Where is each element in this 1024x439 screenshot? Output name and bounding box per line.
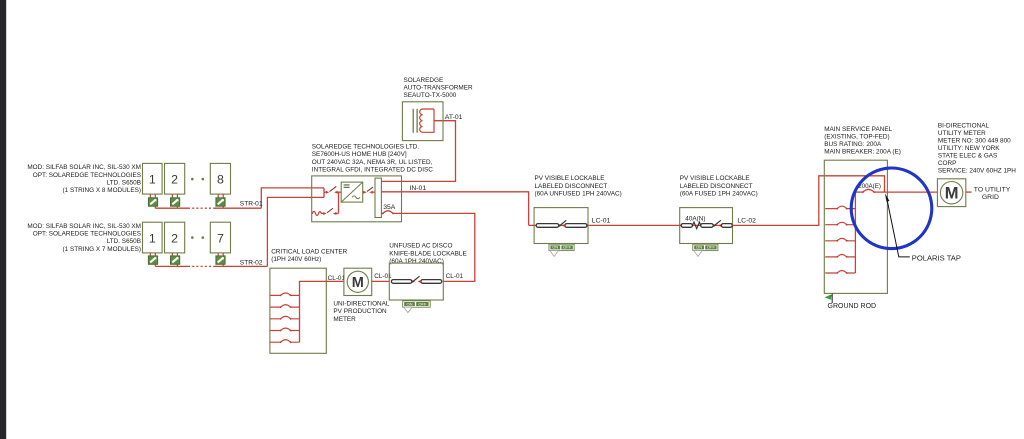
breaker CLC branch 5 xyxy=(270,340,300,343)
inverter symbol (DC/AC) xyxy=(341,182,363,202)
PV module 8 (string 1) xyxy=(210,163,230,194)
svg-text:(1 STRING X 8 MODULES): (1 STRING X 8 MODULES) xyxy=(63,187,141,194)
AC disconnect enclosure xyxy=(389,263,443,300)
PV module 7 (string 2) xyxy=(210,222,230,253)
svg-text:GRID: GRID xyxy=(982,194,999,201)
svg-text:METER: METER xyxy=(333,316,356,323)
note: string 2 module spec xyxy=(27,223,141,253)
wire: IN-01 run through disconnects xyxy=(529,224,680,226)
note: PV production meter label xyxy=(333,301,390,323)
wire: STR-01 riser xyxy=(261,188,324,208)
breaker panel branch 2 xyxy=(825,222,855,225)
inverter enclosure U1 xyxy=(312,176,402,222)
label tag ON/OFF (AC disco) xyxy=(403,301,431,313)
note: inverter spec xyxy=(312,144,433,174)
knife-blade switch (AC disco) xyxy=(391,276,441,283)
note: to utility grid xyxy=(974,187,1011,202)
svg-text:ON: ON xyxy=(696,245,702,250)
svg-text:M: M xyxy=(945,185,959,203)
svg-text:8: 8 xyxy=(217,173,224,187)
optimizer P7 (string 2) xyxy=(216,256,225,264)
svg-text:M: M xyxy=(352,275,364,291)
svg-text:INTEGRAL GFDI, INTEGRATED DC D: INTEGRAL GFDI, INTEGRATED DC DISC xyxy=(312,166,433,173)
wire: panel bus xyxy=(854,192,856,273)
critical load center panel xyxy=(270,268,326,353)
svg-text:PV VISIBLE LOCKABLE: PV VISIBLE LOCKABLE xyxy=(535,175,605,182)
svg-text:SEAUTO-TX-5000: SEAUTO-TX-5000 xyxy=(404,92,457,99)
breaker panel branch 3 xyxy=(825,238,855,241)
svg-text:CL-01: CL-01 xyxy=(328,275,346,282)
svg-text:CORP: CORP xyxy=(938,160,956,167)
optimizer P2 (string 2) xyxy=(171,256,180,264)
note: string 1 module spec xyxy=(27,164,141,194)
svg-text:KNIFE-BLADE LOCKABLE: KNIFE-BLADE LOCKABLE xyxy=(389,250,466,257)
wire: DC pole tie xyxy=(338,192,340,213)
label tag ON/OFF (LC-01) xyxy=(549,244,574,256)
svg-text:AT-01: AT-01 xyxy=(445,114,463,121)
svg-text:LC-02: LC-02 xyxy=(737,217,756,224)
breaker 200A(E) main xyxy=(855,183,884,193)
PV module 1 (string 1) xyxy=(143,163,163,194)
optimizer leads (string 2) xyxy=(150,253,223,267)
note: utility meter spec xyxy=(938,122,1016,174)
switch: DC disconnect pole 2 with GFDI element xyxy=(312,208,339,215)
wire: through LC-02 xyxy=(680,224,733,226)
svg-text:GROUND ROD: GROUND ROD xyxy=(828,303,877,310)
breaker CLC branch 1 xyxy=(270,293,300,296)
svg-text:OPT: SOLAREDGE TECHNOLOGIES: OPT: SOLAREDGE TECHNOLOGIES xyxy=(33,172,141,179)
meter M (bi-directional utility) xyxy=(937,179,965,207)
wire: CLC bus xyxy=(300,281,344,342)
note: main service panel spec xyxy=(824,126,901,156)
annotation: POLARIS TAP leader xyxy=(885,193,961,262)
wire: meter to disco xyxy=(372,280,390,282)
breaker panel branch 1 xyxy=(825,206,855,209)
svg-text:SOLAREDGE TECHNOLOGIES LTD.: SOLAREDGE TECHNOLOGIES LTD. xyxy=(312,144,420,151)
svg-text:MAIN BREAKER: 200A (E): MAIN BREAKER: 200A (E) xyxy=(824,148,901,155)
breaker CLC branch 2 xyxy=(270,305,300,308)
wire: LC-02 to main service panel xyxy=(733,176,885,226)
svg-text:LABELED DISCONNECT: LABELED DISCONNECT xyxy=(680,183,753,190)
wire: IN-01 AC output xyxy=(381,192,528,226)
svg-text:OUT 240VAC 32A, NEMA 3R, UL LI: OUT 240VAC 32A, NEMA 3R, UL LISTED, xyxy=(312,159,433,166)
wire: STR-02 riser xyxy=(267,197,324,266)
svg-text:1: 1 xyxy=(149,173,156,187)
svg-text:SE7600H-US HOME HUB [240V]: SE7600H-US HOME HUB [240V] xyxy=(312,151,407,158)
svg-text:PV VISIBLE LOCKABLE: PV VISIBLE LOCKABLE xyxy=(680,175,750,182)
svg-text:LTD. S650B: LTD. S650B xyxy=(107,238,141,245)
svg-text:MAIN SERVICE PANEL: MAIN SERVICE PANEL xyxy=(824,126,892,133)
svg-text:(EXISTING, TOP-FED): (EXISTING, TOP-FED) xyxy=(824,133,889,140)
svg-text:METER NO: 300 449 800: METER NO: 300 449 800 xyxy=(938,137,1011,144)
svg-text:BI-DIRECTIONAL: BI-DIRECTIONAL xyxy=(938,122,990,129)
wire: panel to utility meter xyxy=(885,191,938,193)
svg-text:AUTO-TRANSFORMER: AUTO-TRANSFORMER xyxy=(404,85,473,92)
wire: DC input join xyxy=(324,188,326,198)
switch: AC output contact xyxy=(363,187,375,194)
note: critical load center label xyxy=(271,249,347,264)
svg-text:TO UTILITY: TO UTILITY xyxy=(974,187,1011,194)
svg-text:SOLAREDGE: SOLAREDGE xyxy=(404,77,444,84)
svg-text:35A: 35A xyxy=(383,204,396,211)
main service panel enclosure xyxy=(824,160,887,293)
busbar (backup interface) xyxy=(375,178,381,217)
svg-text:MOD: SILFAB SOLAR INC, SIL-530: MOD: SILFAB SOLAR INC, SIL-530 XM xyxy=(27,164,141,171)
svg-text:STR-01: STR-01 xyxy=(240,201,263,208)
note: LC-01 disconnect spec xyxy=(535,175,622,197)
svg-text:STR-02: STR-02 xyxy=(240,260,263,267)
switch: DC disconnect pole 1 xyxy=(326,186,341,193)
PV module 2 (string 1) xyxy=(165,163,185,194)
svg-text:OFF: OFF xyxy=(707,245,716,250)
fuse 40A(N) and knife-blade switch (LC-02) xyxy=(681,216,732,229)
optimizer P1 (string 2) xyxy=(148,256,157,264)
svg-text:PV PRODUCTION: PV PRODUCTION xyxy=(333,308,387,315)
svg-text:ON: ON xyxy=(552,245,558,250)
svg-text:OPT: SOLAREDGE TECHNOLOGIES: OPT: SOLAREDGE TECHNOLOGIES xyxy=(33,231,141,238)
svg-text:UTILITY: NEW YORK: UTILITY: NEW YORK xyxy=(938,145,1000,152)
label tag ON/OFF (LC-02) xyxy=(693,244,718,256)
wire: string 2 series bus xyxy=(155,265,267,267)
optimizer P1 (string 1) xyxy=(148,198,157,206)
svg-text:CRITICAL LOAD CENTER: CRITICAL LOAD CENTER xyxy=(271,249,347,256)
wire: through LC-01 xyxy=(534,224,588,226)
svg-text:(1PH 240V 60Hz): (1PH 240V 60Hz) xyxy=(271,256,321,263)
meter M (PV production) xyxy=(344,268,372,295)
svg-text:MOD: SILFAB SOLAR INC, SIL-530: MOD: SILFAB SOLAR INC, SIL-530 XM xyxy=(27,223,141,230)
wire: auto-transformer feed xyxy=(381,121,455,182)
breaker panel branch 5 xyxy=(825,271,855,274)
svg-text:LABELED DISCONNECT: LABELED DISCONNECT xyxy=(535,183,608,190)
svg-text:1: 1 xyxy=(149,231,156,245)
disconnect LC-01 enclosure xyxy=(534,208,588,244)
annotation: blue circle highlight xyxy=(851,168,932,249)
optimizer P8 (string 1) xyxy=(216,198,225,206)
note: unfused AC disco spec xyxy=(389,243,466,265)
ground rod symbol xyxy=(824,293,876,310)
svg-text:CL-01: CL-01 xyxy=(446,273,464,280)
PV module 1 (string 2) xyxy=(143,222,163,253)
ellipsis dots (string 1) xyxy=(191,178,204,181)
svg-text:STATE ELEC & GAS: STATE ELEC & GAS xyxy=(938,152,997,159)
svg-text:OFF: OFF xyxy=(563,245,572,250)
wire: string 1 series bus xyxy=(155,207,261,209)
svg-text:OFF: OFF xyxy=(418,301,427,306)
svg-text:2: 2 xyxy=(171,173,178,187)
note: LC-02 disconnect spec xyxy=(680,175,758,197)
svg-text:LC-01: LC-01 xyxy=(592,217,611,224)
svg-text:ON: ON xyxy=(407,301,413,306)
breaker 35A xyxy=(381,204,395,215)
svg-text:(60A 1PH 240VAC): (60A 1PH 240VAC) xyxy=(389,258,444,265)
svg-text:POLARIS TAP: POLARIS TAP xyxy=(912,253,961,262)
svg-text:(60A UNFUSED 1PH 240VAC): (60A UNFUSED 1PH 240VAC) xyxy=(535,190,622,197)
svg-text:2: 2 xyxy=(171,231,178,245)
svg-text:BUS RATING: 200A: BUS RATING: 200A xyxy=(824,141,882,148)
optimizer leads (string 1) xyxy=(150,194,223,208)
svg-text:40A(N): 40A(N) xyxy=(685,216,705,223)
auto-transformer AT-01 xyxy=(402,102,443,141)
PV module 2 (string 2) xyxy=(165,222,185,253)
svg-text:UNI-DIRECTIONAL: UNI-DIRECTIONAL xyxy=(333,301,390,308)
optimizer P2 (string 1) xyxy=(171,198,180,206)
svg-text:UTILITY METER: UTILITY METER xyxy=(938,130,986,137)
ellipsis dots (string 2) xyxy=(191,236,204,239)
svg-text:IN-01: IN-01 xyxy=(410,185,427,192)
disconnect LC-02 enclosure xyxy=(680,208,733,244)
breaker CLC branch 4 xyxy=(270,328,300,331)
wire: 35A output to critical loads xyxy=(393,213,475,281)
svg-text:SERVICE: 240V 60HZ 1PH: SERVICE: 240V 60HZ 1PH xyxy=(938,167,1016,174)
svg-text:UNFUSED AC DISCO: UNFUSED AC DISCO xyxy=(389,243,452,250)
svg-text:200A(E): 200A(E) xyxy=(858,183,881,190)
knife-blade switch (LC-01) xyxy=(536,220,587,227)
note: auto-transformer spec xyxy=(404,77,473,99)
svg-text:7: 7 xyxy=(217,231,224,245)
breaker CLC branch 3 xyxy=(270,316,300,319)
svg-text:(60A FUSED 1PH 240VAC): (60A FUSED 1PH 240VAC) xyxy=(680,190,758,197)
svg-text:(1 STRING X 7 MODULES): (1 STRING X 7 MODULES) xyxy=(63,246,141,253)
breaker panel branch 4 xyxy=(825,255,855,258)
wire: meter to grid stub xyxy=(966,191,972,193)
svg-text:LTD. S650B: LTD. S650B xyxy=(107,179,141,186)
